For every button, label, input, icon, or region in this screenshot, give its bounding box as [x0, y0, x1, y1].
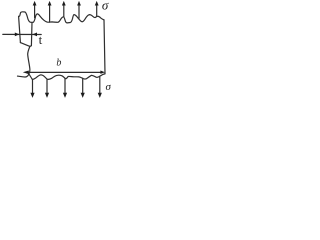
down arrow shaft 4 — [82, 78, 84, 93]
down arrowhead 5 — [98, 93, 102, 98]
b dim arrowhead right (points right) — [100, 71, 105, 74]
t dimension line (continuous through arrowheads) — [3, 33, 41, 35]
down arrowhead 2 — [45, 93, 49, 98]
up arrowhead 3 — [62, 1, 66, 6]
crack-tip extension line — [30, 23, 32, 47]
svg-text:σ: σ — [102, 0, 109, 13]
up arrowhead 2 — [48, 1, 52, 6]
torn left edge: bottom-left tail swoosh — [18, 74, 29, 77]
up arrow shaft 2 — [49, 5, 51, 22]
torn left edge: lower wobble down to bottom junction — [28, 46, 30, 74]
svg-text:σ: σ — [106, 81, 112, 93]
up arrow shaft 3 — [63, 5, 65, 16]
down arrow shaft 2 — [46, 80, 48, 93]
down arrowhead 4 — [81, 93, 85, 98]
down arrowhead 3 — [63, 93, 67, 98]
down arrow shaft 5 — [99, 77, 101, 93]
left edge of plate (upper) — [19, 16, 21, 42]
down arrow shaft 3 — [64, 79, 66, 93]
t dim arrowhead left (points right at plate edge) — [15, 33, 20, 37]
bottom wavy edge of plate — [29, 74, 105, 80]
up arrowhead 1 — [33, 1, 37, 6]
svg-text:b: b — [56, 57, 61, 68]
down arrow shaft 1 — [32, 80, 34, 93]
b dim arrowhead left (points left) — [23, 71, 29, 75]
torn left edge: upper diagonal — [20, 43, 30, 47]
up arrowhead 4 — [77, 1, 81, 6]
top wavy edge of plate — [19, 12, 104, 23]
b dimension line — [29, 71, 101, 73]
svg-text:t: t — [39, 32, 43, 47]
down arrowhead 1 — [30, 93, 34, 98]
t dim arrowhead right (points left at crack tip) — [32, 33, 37, 37]
up arrow shaft 1 — [34, 5, 36, 18]
up arrow shaft 4 — [78, 5, 80, 18]
up arrowhead 5 — [95, 1, 99, 6]
right edge of plate — [104, 20, 105, 74]
up arrow shaft 5 — [96, 5, 98, 16]
